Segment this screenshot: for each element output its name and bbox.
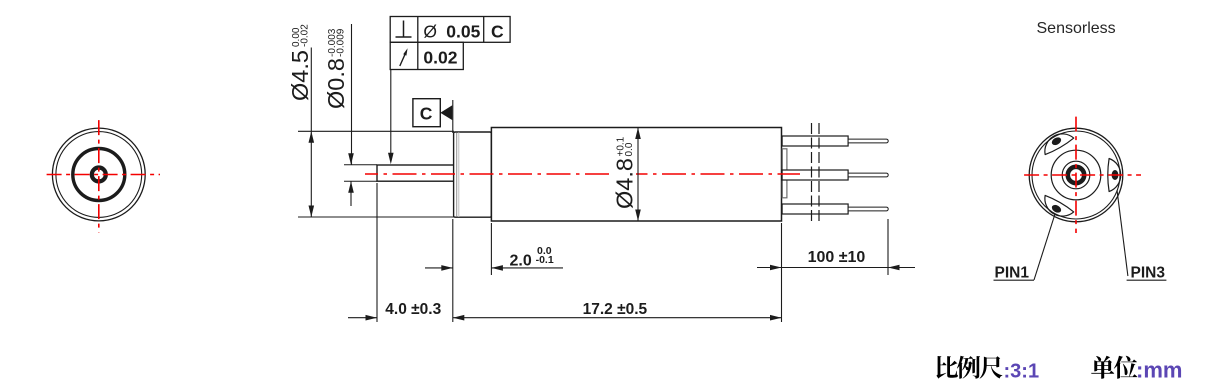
- Ø4.5 arrow down: [309, 206, 315, 218]
- svg-text:0.02: 0.02: [423, 48, 457, 68]
- Ø4.5 label: [287, 24, 313, 101]
- front view bearing boss circle: [73, 149, 125, 201]
- 2.0 extension line left: [452, 219, 454, 322]
- Ø0.8 label: [323, 28, 349, 109]
- rear view circle r13.8: [1062, 161, 1090, 189]
- svg-text:-0.02: -0.02: [300, 24, 311, 47]
- 100 right tail: [888, 267, 915, 269]
- datum triangle: [440, 105, 452, 120]
- svg-text:Ø: Ø: [423, 22, 437, 42]
- lead bottom thick: [782, 204, 848, 214]
- lead top thick: [782, 136, 848, 146]
- svg-text:100 ±10: 100 ±10: [808, 249, 866, 266]
- front view vertical centerline: [98, 117, 100, 233]
- feature control frame runout: [390, 42, 463, 69]
- datum extension line above front face: [452, 100, 454, 133]
- runout symbol: [400, 48, 408, 66]
- svg-text:4.0 ±0.3: 4.0 ±0.3: [385, 301, 441, 318]
- Ø0.8 extension line top: [344, 164, 377, 166]
- svg-text:Ø4.8: Ø4.8: [612, 158, 638, 209]
- 2.0 dimension line right tail: [491, 267, 563, 269]
- svg-text::3:1: :3:1: [1004, 361, 1040, 382]
- Ø0.8 dimension line lower: [350, 181, 352, 206]
- svg-text::mm: :mm: [1136, 358, 1182, 382]
- 17.2 dimension line: [453, 317, 782, 319]
- rear view outer circle: [1029, 128, 1123, 222]
- 4.0 dimension tail left: [348, 317, 377, 319]
- svg-text:-0.009: -0.009: [336, 28, 347, 57]
- 100 arrow left: [770, 265, 782, 271]
- 2.0 arrow right: [491, 265, 503, 271]
- front section chamfer line 2: [458, 132, 460, 217]
- 100 arrow right: [888, 265, 900, 271]
- 2.0 dimension line left tail: [425, 267, 453, 269]
- side view centerline: [365, 173, 800, 175]
- lead middle thick: [782, 170, 848, 180]
- svg-text:2.0: 2.0: [510, 253, 532, 270]
- 17.2 arrow right: [770, 315, 782, 321]
- GD&T leader arrow: [388, 153, 394, 165]
- svg-text:C: C: [491, 22, 504, 42]
- Ø4.8 label: [612, 136, 638, 209]
- Ø4.5 extension line top: [298, 130, 454, 132]
- 100 extension line right: [887, 219, 889, 275]
- PIN1 underline: [994, 279, 1035, 281]
- 17.2 arrow left: [453, 315, 465, 321]
- rear view shaft ring: [1068, 167, 1084, 183]
- feature control frame perpendicularity: [390, 17, 510, 43]
- front view shaft ring: [92, 168, 106, 182]
- Ø4.5 extension line bottom: [298, 216, 454, 218]
- Ø4.5 arrow up: [309, 131, 315, 143]
- svg-text:PIN3: PIN3: [1131, 264, 1166, 281]
- Ø0.8 dimension line upper: [351, 24, 353, 165]
- svg-text:0.0: 0.0: [624, 142, 635, 156]
- front view horizontal centerline: [43, 174, 160, 176]
- 2.0 arrow left: [441, 265, 453, 271]
- Ø4.8 label halo: [611, 158, 636, 190]
- Ø4.8 dimension line: [637, 128, 639, 222]
- rear view vertical centerline: [1075, 113, 1077, 233]
- Ø0.8 arrow down at shaft top: [348, 153, 354, 165]
- front view body circle (Ø4.8 outer): [52, 128, 145, 221]
- body right extension line: [781, 223, 783, 322]
- svg-text:PIN1: PIN1: [995, 264, 1030, 281]
- motor body (Ø4.8 x 17.2): [491, 128, 781, 222]
- Ø4.8 arrow down: [635, 210, 641, 222]
- datum C box: [413, 99, 440, 127]
- rear slot right: [1108, 159, 1121, 192]
- break line 2: [818, 123, 820, 223]
- front bearing section (Ø4.5 x 2.0): [454, 132, 492, 217]
- break line 1: [811, 123, 813, 223]
- PIN3 underline: [1127, 279, 1167, 281]
- svg-text:C: C: [420, 104, 433, 124]
- rear slot upper-left: [1039, 128, 1074, 156]
- rear view horizontal centerline: [1021, 174, 1142, 176]
- PIN3 leader: [1117, 190, 1128, 276]
- 100 left tail: [757, 267, 782, 269]
- svg-text:0.05: 0.05: [446, 22, 480, 42]
- front section chamfer line 1: [456, 133, 458, 217]
- svg-text:Ø4.5: Ø4.5: [287, 50, 313, 101]
- rear view circle r25: [1051, 150, 1101, 200]
- svg-text:17.2 ±0.5: 17.2 ±0.5: [583, 301, 648, 318]
- svg-text:-0.1: -0.1: [536, 254, 554, 266]
- rear pin 2: [1050, 136, 1062, 147]
- svg-text:Sensorless: Sensorless: [1037, 20, 1116, 37]
- front view face circle (Ø4.5): [56, 132, 142, 218]
- rear view inner rim circle: [1032, 131, 1120, 219]
- Ø4.8 arrow up: [635, 128, 641, 140]
- lead middle thin: [848, 173, 888, 177]
- Ø0.8 arrow up at shaft bottom: [348, 181, 354, 193]
- lead top thin: [848, 139, 888, 143]
- rear pin 3: [1112, 170, 1119, 180]
- rear pin 1: [1050, 203, 1062, 214]
- 2.0 extension line right: [490, 223, 492, 275]
- PIN1 leader: [1034, 214, 1055, 280]
- perpendicularity symbol: [396, 21, 412, 38]
- scale label 比例尺: [936, 356, 1137, 379]
- rear end cap: [782, 149, 787, 198]
- 100 dimension line: [782, 267, 889, 269]
- 4.0 extension line at shaft tip: [376, 183, 378, 322]
- svg-text:Ø0.8: Ø0.8: [323, 58, 349, 109]
- rear slot lower-left: [1039, 194, 1074, 222]
- Ø0.8 extension line bottom: [344, 180, 377, 182]
- Ø4.5 dimension line: [310, 48, 312, 218]
- lead bottom thin: [848, 207, 888, 211]
- GD&T leader line: [390, 70, 392, 161]
- 4.0 arrow: [366, 315, 378, 321]
- shaft: [377, 165, 454, 181]
